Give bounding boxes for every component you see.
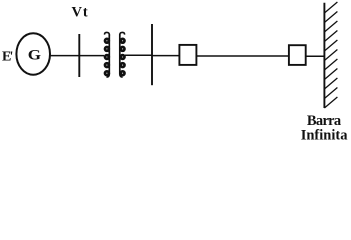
- infinite bus wall line: [323, 3, 325, 108]
- wire transformer secondary to bus 2: [125, 54, 152, 56]
- transmission line element box 1: [179, 45, 196, 65]
- transmission line element box 2: [289, 45, 306, 65]
- svg-text:Vt: Vt: [72, 5, 89, 21]
- svg-text:Barra: Barra: [307, 113, 342, 129]
- wire line element 1 to line element 2: [197, 55, 289, 57]
- wire line element 2 to infinite bus wall: [306, 55, 325, 57]
- generator G1 circle: [16, 33, 50, 74]
- wire generator to bus 1 and transformer primary: [51, 55, 105, 57]
- svg-text:Infinita: Infinita: [301, 128, 348, 144]
- bus bar 2 (high voltage bus): [151, 24, 153, 85]
- transformer T1 secondary winding: [120, 32, 125, 77]
- transformer T1 primary winding: [105, 32, 110, 77]
- infinite bus wall hatching: [324, 2, 337, 108]
- wire bus 2 to line element 1: [152, 55, 179, 57]
- svg-text:G: G: [28, 48, 42, 64]
- bus bar 1 (generator terminal bus): [78, 34, 80, 77]
- svg-text:E': E': [2, 49, 13, 64]
